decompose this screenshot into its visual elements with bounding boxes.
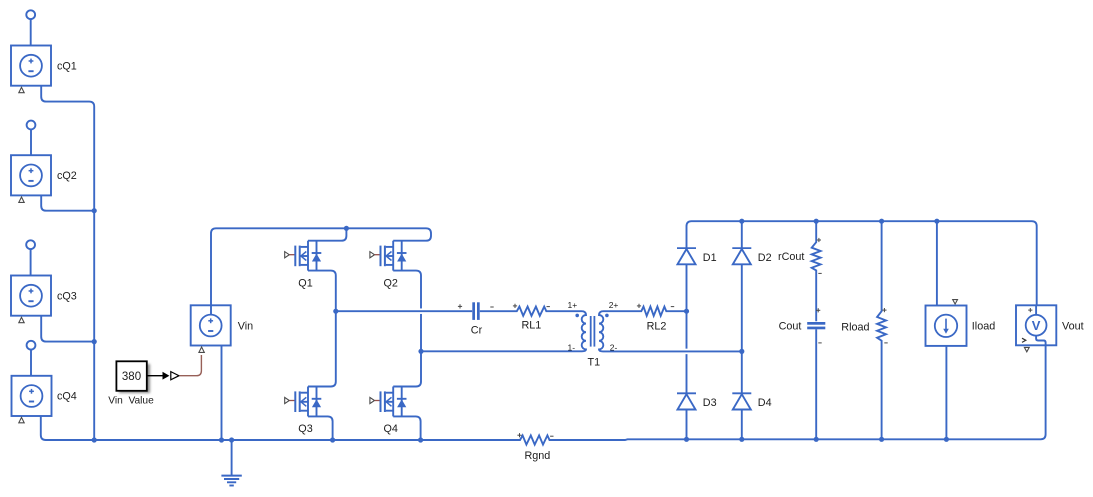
- svg-text:Q4: Q4: [384, 423, 398, 435]
- label cQ2: [57, 170, 77, 182]
- wire Q1 source down to node A: [308, 271, 336, 312]
- voltage source cQ2: [11, 121, 51, 203]
- wire cQ2 output: [41, 195, 94, 210]
- svg-text:2+: 2+: [609, 300, 619, 310]
- ground symbol: [221, 476, 241, 486]
- label 1-: [568, 342, 576, 352]
- svg-text:T1: T1: [588, 357, 601, 369]
- label RL2: [647, 320, 667, 332]
- label Q4: [384, 423, 398, 435]
- svg-text:Q2: Q2: [384, 278, 398, 290]
- svg-text:D3: D3: [703, 397, 717, 409]
- transformer T1 secondary winding: [599, 311, 604, 351]
- voltage source cQ3: [11, 240, 51, 322]
- label 2-: [610, 342, 618, 352]
- svg-text:cQ1: cQ1: [57, 61, 77, 73]
- label Q2: [384, 278, 398, 290]
- wire D2 rectifier column: [741, 221, 743, 439]
- label Cr: [471, 324, 483, 336]
- voltage source cQ4: [12, 341, 52, 423]
- voltage source cQ1: [11, 10, 51, 92]
- diode D4: [732, 393, 751, 409]
- MOSFET Q2: [370, 241, 407, 271]
- svg-text:Cout: Cout: [779, 321, 802, 333]
- constant block 380 (Vin Value): [116, 361, 150, 393]
- wire top bus to Iload: [936, 221, 938, 305]
- svg-text:Vout: Vout: [1062, 321, 1084, 333]
- label Q1: [298, 278, 312, 290]
- wire node A to Cr: [336, 310, 472, 312]
- wire rCout Cout column with resistor rCout zigzag: [812, 221, 821, 439]
- label D1: [703, 252, 717, 264]
- svg-text:Cr: Cr: [471, 324, 483, 336]
- transformer T1 polarity dots: [575, 314, 608, 318]
- svg-text:cQ2: cQ2: [57, 170, 77, 182]
- capacitor Cr: [458, 302, 494, 320]
- wire cQ3 output: [41, 316, 94, 342]
- diode D2: [732, 248, 751, 264]
- wire Vin bottom to ground bus: [221, 346, 223, 440]
- svg-text:1+: 1+: [568, 300, 578, 310]
- label cQ3: [57, 291, 77, 303]
- label cQ1: [57, 61, 77, 73]
- resistor RL2 markers: [637, 304, 674, 308]
- label RL1: [522, 320, 542, 332]
- wire node B down to Q4 drain: [393, 351, 421, 386]
- wire D1 rectifier column: [687, 221, 692, 439]
- label Vin: [238, 320, 253, 332]
- wire Iload bottom to ground bus: [945, 346, 947, 439]
- svg-text:Rload: Rload: [841, 322, 869, 334]
- label Rgnd: [525, 450, 551, 462]
- svg-text:Rgnd: Rgnd: [525, 450, 551, 462]
- svg-text:Vin: Vin: [238, 320, 253, 332]
- svg-text:Iload: Iload: [972, 320, 995, 332]
- resistor Rload markers: [882, 308, 887, 343]
- wire node A down to Q3 drain: [308, 311, 336, 386]
- wire Vout internal top: [1035, 306, 1037, 315]
- label cQ4: [57, 391, 77, 403]
- label D2: [758, 252, 772, 264]
- svg-text:Vin Value: Vin Value: [108, 396, 154, 407]
- ground connection wire: [231, 440, 233, 475]
- diode D3: [677, 393, 696, 409]
- wire Vout internal bottom step: [1036, 336, 1046, 345]
- MOSFET Q4: [370, 387, 407, 417]
- transformer T1 core: [591, 316, 595, 347]
- signal arrow from constant block: [147, 372, 179, 380]
- wire T1 secondary + through resistor RL2 to D1 column: [604, 307, 687, 316]
- wire T1 secondary - to D2 column: [603, 350, 742, 352]
- resistor RL1 markers: [513, 304, 550, 308]
- svg-text:RL1: RL1: [522, 320, 542, 332]
- svg-text:380: 380: [122, 371, 141, 383]
- svg-text:1-: 1-: [568, 342, 576, 352]
- crossover halo secondary - wire over D1 column: [680, 349, 695, 355]
- crossover halo node A wire over Q2-Q4 wire: [414, 308, 428, 314]
- wire Q4 source to ground bus: [393, 416, 420, 440]
- svg-text:rCout: rCout: [778, 251, 804, 263]
- svg-text:V: V: [1032, 318, 1041, 333]
- label Vout: [1062, 321, 1084, 333]
- MOSFET Q3: [285, 387, 322, 417]
- wire Vin internal top stub: [210, 306, 212, 315]
- wire top output bus: [692, 221, 1037, 315]
- diode D1: [677, 248, 696, 264]
- wire node B to T1 primary -: [421, 350, 582, 352]
- label Rload: [841, 322, 869, 334]
- wire Q2 source down to node B: [393, 271, 421, 352]
- svg-text:Q1: Q1: [298, 278, 312, 290]
- wire Vin top to bridge rails: [211, 228, 431, 305]
- svg-text:cQ4: cQ4: [57, 391, 77, 403]
- capacitor Cout: [807, 308, 825, 343]
- resistor rCout markers: [817, 238, 822, 274]
- resistor Rgnd markers: [517, 433, 553, 437]
- label Q3: [298, 423, 312, 435]
- svg-text:RL2: RL2: [647, 320, 667, 332]
- label rCout: [778, 251, 804, 263]
- transformer T1 primary winding: [582, 311, 587, 351]
- label 1+: [568, 300, 578, 310]
- svg-text:D4: D4: [758, 397, 772, 409]
- label Vin Value: [108, 396, 154, 407]
- label Iload: [972, 320, 995, 332]
- svg-text:cQ3: cQ3: [57, 291, 77, 303]
- wire branch to Q1 drain: [308, 228, 346, 240]
- wire cQ1 output to left vertical bus: [41, 86, 94, 440]
- label D4: [758, 397, 772, 409]
- wire bottom ground bus from cQ4 output across schematic to Vout: [41, 336, 1046, 445]
- voltage sensor Vout: [1016, 305, 1056, 352]
- svg-text:D2: D2: [758, 252, 772, 264]
- label 2+: [609, 300, 619, 310]
- MOSFET Q1: [285, 241, 322, 271]
- current sensor Iload: [926, 300, 967, 346]
- voltage source Vin: [191, 305, 231, 352]
- label T1: [588, 357, 601, 369]
- physical signal wire to Vin control port: [179, 355, 201, 376]
- svg-text:D1: D1: [703, 252, 717, 264]
- wire Q3 source to ground bus: [308, 416, 333, 440]
- wire Rload column with resistor Rload zigzag: [877, 221, 886, 439]
- wire Cr to RL1 and T1 primary + with resistor RL1 zigzag: [480, 307, 582, 316]
- svg-text:Q3: Q3: [298, 423, 312, 435]
- label Cout: [779, 321, 802, 333]
- label D3: [703, 397, 717, 409]
